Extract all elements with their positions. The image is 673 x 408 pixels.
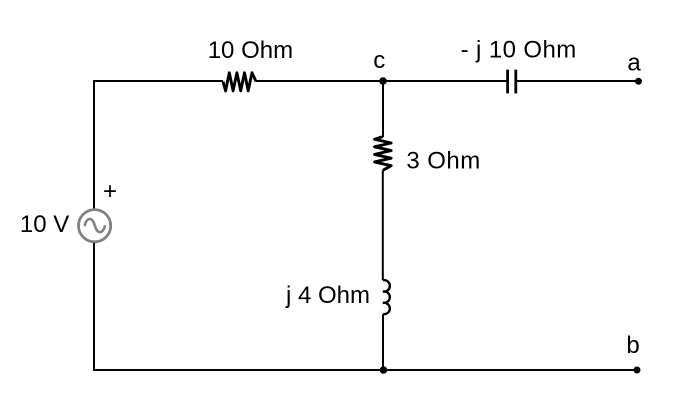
wire resistor to node c: [256, 80, 383, 82]
svg-text:10 Ohm: 10 Ohm: [208, 37, 293, 64]
terminal a dot: [635, 78, 642, 85]
svg-text:j 4 Ohm: j 4 Ohm: [285, 282, 370, 309]
voltage source V 10 V: [79, 210, 111, 242]
wire node c down to 3 Ohm resistor: [382, 81, 384, 137]
terminal b dot: [634, 367, 641, 374]
wire capacitor to terminal a: [516, 80, 639, 82]
wire top-left: source top to resistor: [94, 80, 223, 82]
wire node c to capacitor: [383, 80, 507, 82]
wire inductor to bottom junction: [382, 314, 384, 370]
svg-text:10 V: 10 V: [20, 211, 69, 238]
inductor j 4 Ohm: [383, 280, 390, 314]
bottom junction dot: [380, 366, 388, 374]
svg-text:3 Ohm: 3 Ohm: [406, 148, 480, 175]
resistor 3 Ohm: [375, 137, 392, 171]
svg-text:c: c: [373, 47, 385, 74]
resistor 10 Ohm: [223, 73, 256, 91]
svg-text:b: b: [626, 332, 639, 359]
svg-text:+: +: [103, 178, 117, 205]
wire source top: [93, 80, 95, 209]
svg-text:- j 10 Ohm: - j 10 Ohm: [461, 37, 577, 64]
wire source bottom to bottom-left corner: [93, 243, 95, 371]
node c junction dot: [379, 77, 387, 85]
capacitor - j 10 Ohm: [508, 70, 516, 94]
bottom wire to terminal b: [93, 369, 637, 371]
svg-text:a: a: [627, 49, 641, 76]
wire 3 Ohm resistor to inductor: [382, 170, 384, 280]
